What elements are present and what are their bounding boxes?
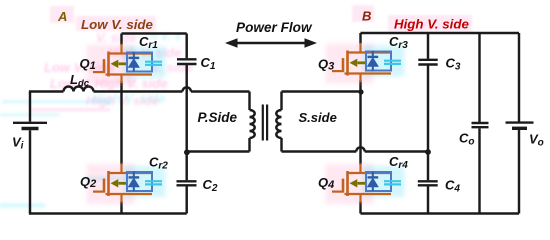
svg-text:Power Flow: Power Flow	[236, 20, 313, 35]
svg-text:High V. side: High V. side	[394, 17, 469, 32]
svg-text:B: B	[362, 9, 371, 24]
svg-text:High V. side: High V. side	[92, 91, 165, 106]
svg-text:S.side: S.side	[299, 110, 337, 125]
svg-text:V. side: V. side	[96, 30, 137, 45]
svg-text:Low V. side: Low V. side	[81, 17, 154, 32]
svg-text:A: A	[57, 9, 67, 24]
svg-text:P.Side: P.Side	[198, 110, 238, 125]
